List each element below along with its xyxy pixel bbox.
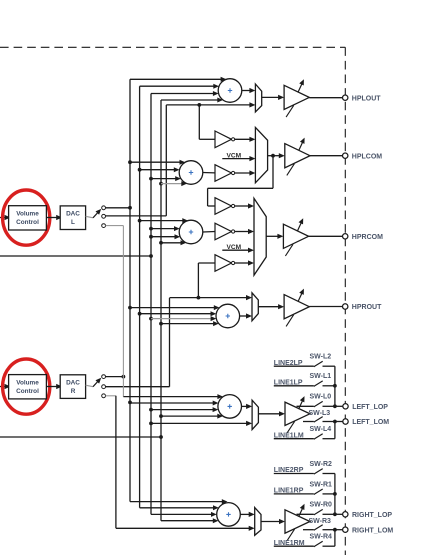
wire mux M5 to driver A5 — [258, 411, 285, 416]
dashed chip boundary right edge — [344, 47, 346, 555]
switch SW-R2 — [274, 469, 335, 475]
wire DAC L route 1 to bus v1 — [106, 206, 132, 210]
svg-text:SW-L4: SW-L4 — [310, 426, 332, 433]
block DAC L — [60, 206, 85, 230]
wire right out M bus — [333, 528, 342, 546]
switch SW DAC L blade and contacts — [86, 206, 106, 228]
svg-text:SW-L1: SW-L1 — [310, 373, 332, 380]
wire into summing amp U6 input 2 — [140, 505, 219, 510]
switch SW-R4 — [274, 541, 335, 547]
label LINE1RM net — [274, 540, 305, 547]
svg-text:DAC: DAC — [66, 211, 80, 218]
label VCM net row2 — [226, 153, 241, 160]
dashed chip boundary top edge — [0, 46, 345, 48]
wire tap from HPROUT bypass up to buffer B3c — [198, 263, 215, 298]
label LINE1LP net — [274, 379, 303, 386]
wire DAC R route 3 (gray) to bus vgR — [106, 395, 116, 397]
summing amp U6 (RIGHT_LO mixer) — [217, 503, 241, 527]
wire buffer B3b to mux M3 — [235, 229, 254, 234]
label SW-L0 — [310, 394, 332, 401]
wire into summing amp U2 input 1 — [130, 160, 185, 165]
arrow Volume Control R to DAC R — [46, 384, 62, 389]
wire mux M1 to driver A1 — [262, 95, 284, 100]
svg-text:RIGHT_LOP: RIGHT_LOP — [352, 512, 392, 519]
svg-text:SW-R1: SW-R1 — [310, 481, 333, 488]
output driver A5 (LEFT_LO) — [285, 395, 310, 433]
wire DAC R route 2 to bus v6 — [106, 386, 170, 388]
label VCM net row3 — [226, 244, 241, 251]
label SW-R4 — [310, 534, 333, 541]
wire into summing amp U1 input 1 — [130, 77, 226, 82]
wire HPLCOM node down to buffer B3a — [208, 156, 273, 206]
label LINE1LM net — [274, 432, 304, 439]
pad HPLOUT — [343, 95, 348, 100]
wire DAC R route 1 to bus va — [106, 375, 126, 379]
wire mux M4 to driver A4 — [258, 304, 284, 309]
wire into summing amp U4 input 4 — [161, 321, 219, 326]
wire buffer B2a to mux M2 — [235, 137, 256, 142]
wire DAC L route 3 (gray) to bus va — [106, 225, 124, 227]
svg-text:LEFT_LOP: LEFT_LOP — [352, 404, 388, 411]
label HPLCOM — [352, 153, 383, 160]
wire right out P bus — [333, 474, 342, 517]
wire bypass into mux M6 — [116, 526, 255, 531]
svg-text:Volume: Volume — [16, 211, 39, 218]
label LINE2RP net — [274, 467, 304, 474]
mux M3 — [254, 198, 266, 275]
switch SW-R0 — [297, 509, 335, 515]
wire VCM into mux M2 — [222, 156, 255, 161]
wire into summing amp U1 input 2 — [140, 84, 219, 89]
switch SW-R1 — [274, 489, 335, 495]
svg-text:RIGHT_LOM: RIGHT_LOM — [352, 527, 393, 534]
wire into summing amp U4 input 1 — [130, 305, 220, 310]
input arrow into Volume Control R — [0, 384, 11, 389]
label HPROUT — [352, 304, 382, 311]
label SW-L1 — [310, 373, 332, 380]
wire analog input PGA_R from left edge — [0, 435, 163, 439]
summing amp U3 (HPRCOM mixer) — [179, 220, 203, 244]
wire left out M bus — [333, 420, 343, 439]
svg-text:HPLCOM: HPLCOM — [352, 153, 383, 160]
wire U4 output to mux M4 — [240, 313, 252, 318]
block Volume Control L — [9, 206, 47, 230]
wire U3 output to buffer B3b — [203, 231, 215, 234]
wire mux M6 to driver A6 — [261, 519, 285, 524]
wire DAC bypass into mux M4 — [170, 295, 253, 300]
wire into summing amp U5 input 3 — [151, 407, 218, 412]
svg-text:SW-R2: SW-R2 — [310, 461, 333, 468]
label LINE2LP net — [274, 360, 303, 367]
output driver A2 (HPLCOM) — [285, 137, 310, 176]
wire into summing amp U5 input 4 — [161, 414, 223, 419]
wire driver A2 to HPLCOM pad — [310, 155, 343, 157]
wire into summing amp U4 input 2 — [140, 311, 217, 316]
wire into summing amp U5 input 1 — [123, 394, 223, 399]
label SW-L3 — [309, 410, 331, 417]
pad RIGHT_LOM — [343, 527, 348, 532]
wire left out P bus — [333, 366, 343, 408]
buffer B3a — [215, 198, 235, 215]
switch SW-L0 — [297, 401, 335, 407]
label LEFT_LOM — [352, 419, 389, 426]
label RIGHT_LOM — [352, 527, 393, 534]
pad HPROUT — [343, 304, 348, 309]
svg-text:SW-L2: SW-L2 — [310, 354, 332, 361]
mux M1 — [255, 84, 261, 112]
wire bus vertical v1 — [128, 79, 132, 501]
wire bus vertical v3 — [149, 94, 153, 515]
block Volume Control R — [9, 375, 47, 399]
svg-text:SW-R4: SW-R4 — [310, 534, 333, 541]
switch SW-L2 — [274, 361, 335, 367]
wire into summing amp U2 input 3 — [151, 176, 181, 181]
svg-text:DAC: DAC — [66, 379, 80, 386]
wire driver A3 to HPRCOM pad — [309, 235, 343, 237]
wire bus vertical va (gray) — [122, 226, 124, 397]
label SW-L2 — [310, 354, 332, 361]
red highlight ellipse around Volume Control R — [3, 359, 50, 414]
pad LEFT_LOM — [343, 419, 348, 424]
input arrow into Volume Control L — [0, 215, 11, 220]
wire into summing amp U1 input 3 — [151, 91, 219, 96]
label SW-R3 — [309, 518, 332, 525]
mux M2 — [255, 127, 267, 182]
buffer B2a — [215, 131, 235, 148]
svg-text:SW-R0: SW-R0 — [310, 502, 333, 509]
label HPLOUT — [352, 95, 382, 102]
summing amp U2 (HPLCOM mixer) — [179, 161, 203, 185]
summing amp U5 (LEFT_LO mixer) — [218, 395, 242, 419]
pad HPLCOM — [343, 153, 348, 158]
wire buffer B2b to mux M2 — [235, 170, 256, 175]
svg-text:LEFT_LOM: LEFT_LOM — [352, 419, 389, 426]
mux M5 — [252, 400, 258, 429]
switch SW DAC R blade and contacts — [86, 375, 106, 398]
svg-text:HPRCOM: HPRCOM — [352, 234, 383, 241]
mux M4 — [252, 293, 258, 321]
wire into summing amp U4 input 3 (gray) — [151, 316, 216, 321]
arrow Volume Control L to DAC L — [46, 215, 62, 220]
switch SW-L1 — [274, 381, 335, 387]
wire DAC bypass into mux M1 — [166, 102, 255, 107]
switch SW-L4 — [274, 434, 335, 440]
wire mux M2 output node — [268, 153, 285, 158]
output driver A6 (RIGHT_LO) — [285, 503, 310, 541]
pad RIGHT_LOP — [343, 512, 348, 517]
wire bus vertical v5 — [165, 105, 167, 216]
wire analog input PGA_L from left edge — [0, 255, 151, 257]
wire into summing amp U6 input 4 — [161, 518, 219, 523]
mux M6 — [255, 508, 261, 536]
wire into summing amp U3 input 1 — [140, 218, 188, 223]
wire bypass into mux M5 — [151, 421, 252, 426]
wire bus vertical vgR — [115, 396, 117, 529]
wire bus vertical v2 — [138, 86, 142, 508]
output driver A4 (HPROUT) — [284, 288, 309, 327]
wire into summing amp U3 input 3 — [151, 234, 180, 239]
wire into summing amp U6 input 3 — [151, 512, 217, 517]
label LEFT_LOP — [352, 404, 388, 411]
wire into summing amp U6 input 1 — [130, 499, 228, 504]
summing amp U4 (HPROUT mixer) — [216, 304, 240, 328]
wire into summing amp U2 input 2 — [140, 167, 180, 172]
wire into summing amp U3 input 4 — [161, 240, 186, 245]
svg-text:L: L — [71, 219, 75, 226]
output driver A1 (HPLOUT) — [284, 78, 309, 117]
svg-text:HPROUT: HPROUT — [352, 304, 382, 311]
label SW-L4 — [310, 426, 332, 433]
svg-text:Control: Control — [16, 219, 39, 226]
wire tap from bypass to buffer B2a — [199, 105, 215, 139]
summing amp U1 (HPLOUT mixer) — [218, 79, 242, 103]
wire into summing amp U2 input 4 (gray) — [161, 181, 187, 186]
wire driver A1 to HPLOUT pad — [309, 97, 342, 99]
wire VCM into mux M3 — [222, 248, 254, 253]
wire buffer B3a to mux M3 — [235, 203, 254, 208]
buffer B3b — [215, 223, 235, 240]
wire into summing amp U3 input 2 — [151, 226, 180, 231]
label HPRCOM — [352, 234, 383, 241]
wire bus vertical v6 — [169, 298, 171, 387]
label SW-R2 — [310, 461, 333, 468]
output driver A3 (HPRCOM) — [283, 217, 308, 256]
wire into summing amp U1 input 4 — [161, 98, 223, 103]
red highlight ellipse around Volume Control L — [3, 190, 50, 245]
wire driver A4 to HPROUT pad — [309, 306, 342, 308]
label RIGHT_LOP — [352, 512, 392, 519]
wire bus vertical v4 — [159, 100, 163, 521]
label LINE1RP net — [274, 488, 304, 495]
svg-text:HPLOUT: HPLOUT — [352, 95, 382, 102]
switch SW-L3 — [303, 417, 335, 423]
svg-text:SW-R3: SW-R3 — [309, 518, 332, 525]
wire U2 output to buffer B2b — [203, 172, 215, 174]
wire into summing amp U5 input 2 — [130, 401, 218, 406]
label SW-R0 — [310, 502, 333, 509]
svg-text:Volume: Volume — [16, 380, 39, 387]
buffer B2b — [215, 165, 235, 182]
wire buffer B3c to mux M3 — [235, 260, 254, 265]
buffer B3c — [215, 255, 235, 272]
svg-text:SW-L0: SW-L0 — [310, 394, 332, 401]
pad HPRCOM — [343, 234, 348, 239]
wire DAC L route 2 to bus v5 — [106, 215, 167, 217]
wire U1 output to mux M1 — [242, 88, 256, 93]
pad LEFT_LOP — [343, 404, 348, 409]
block DAC R — [60, 375, 85, 399]
wire U6 output to mux M6 — [240, 512, 254, 517]
svg-text:Control: Control — [16, 388, 39, 395]
wire mux M3 to driver A3 — [266, 234, 283, 239]
wire U5 output to mux M5 — [242, 404, 253, 409]
svg-text:R: R — [71, 388, 76, 395]
svg-text:SW-L3: SW-L3 — [309, 410, 331, 417]
label SW-R1 — [310, 481, 333, 488]
switch SW-R3 — [303, 525, 335, 531]
